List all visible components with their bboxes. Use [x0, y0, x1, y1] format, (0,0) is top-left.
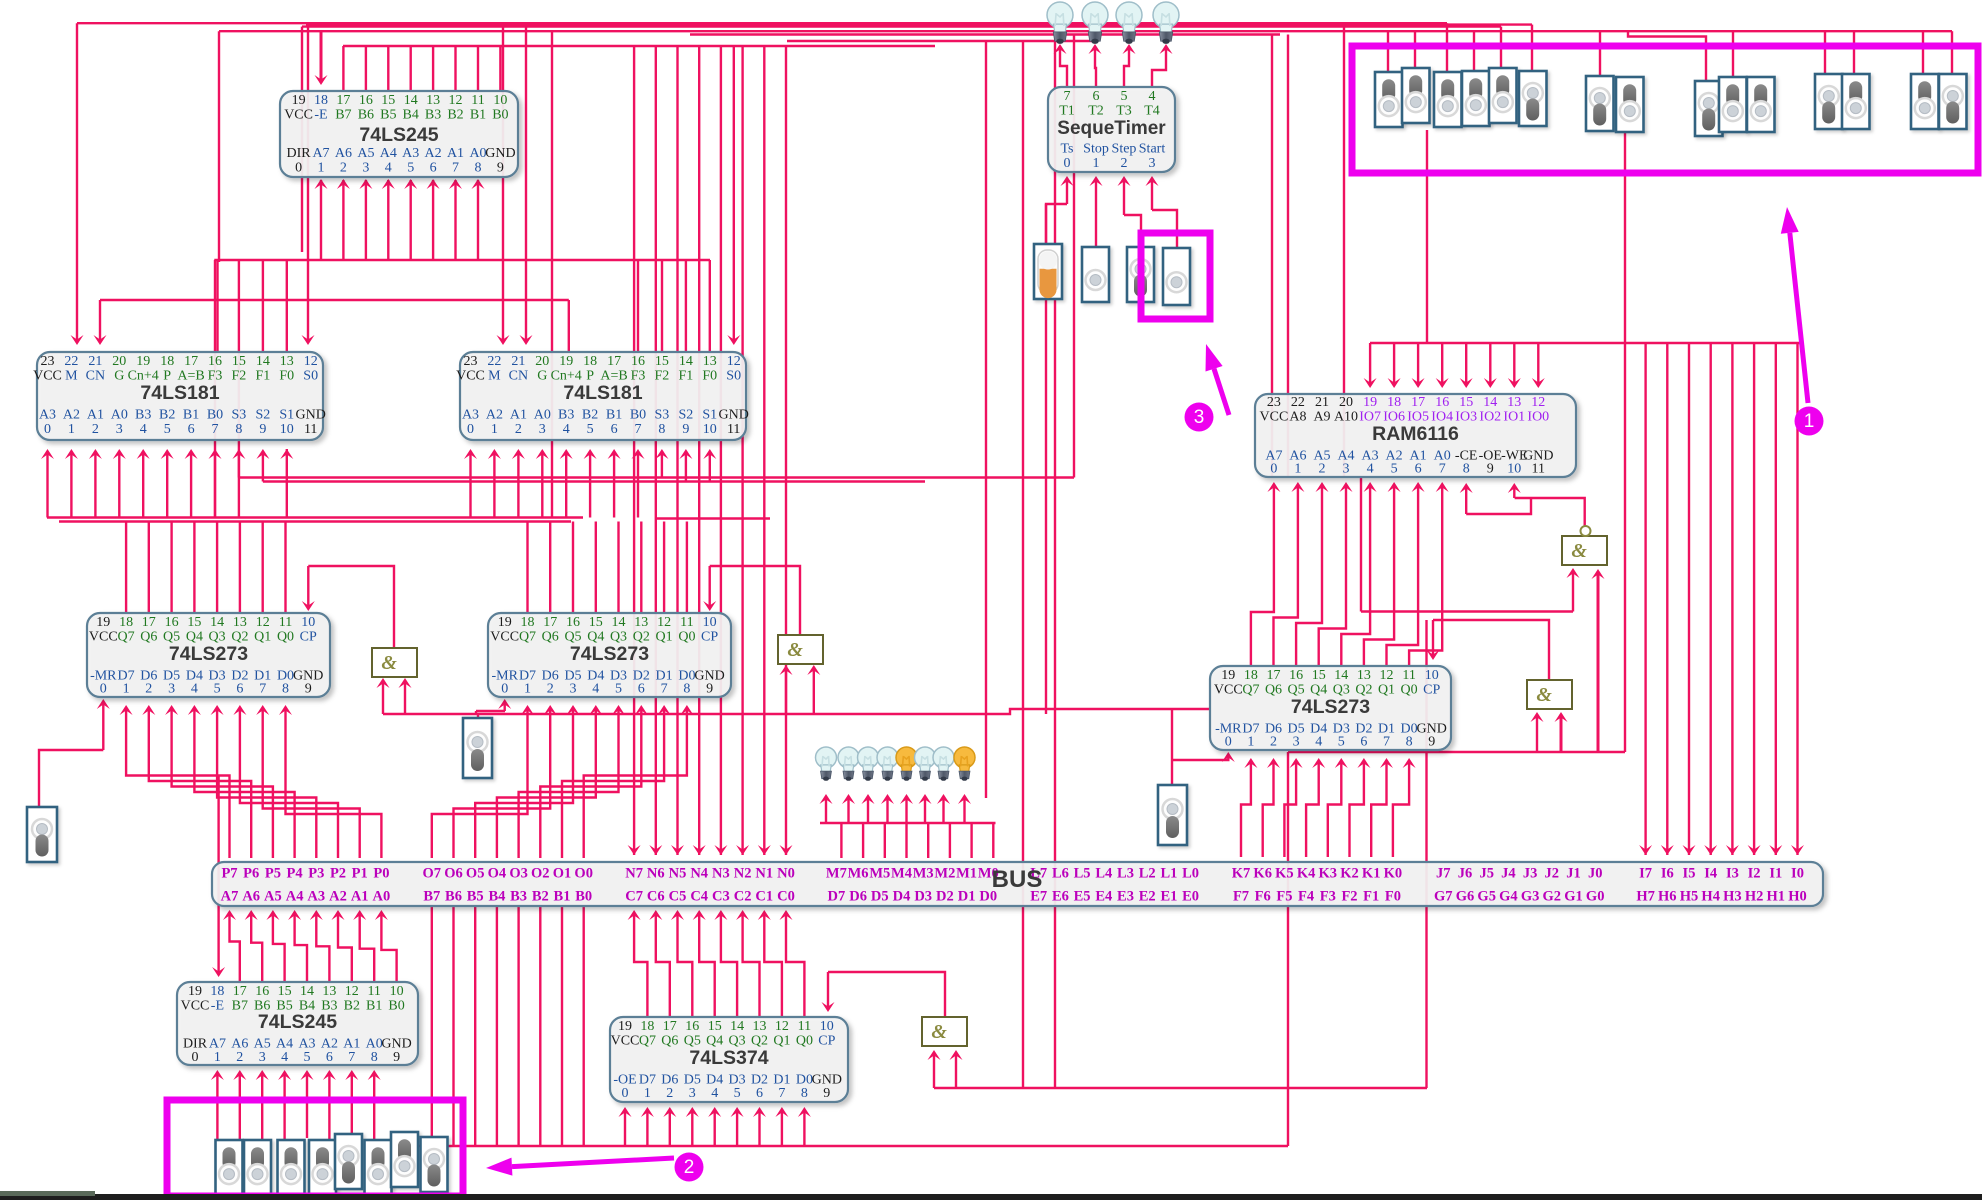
svg-text:F7: F7 [1233, 889, 1249, 905]
svg-text:H2: H2 [1745, 889, 1764, 905]
svg-text:11: 11 [1532, 462, 1545, 477]
svg-text:15: 15 [1312, 668, 1326, 683]
svg-text:23: 23 [41, 354, 55, 369]
svg-text:O7: O7 [423, 866, 442, 882]
svg-text:19: 19 [1363, 395, 1377, 410]
svg-text:A5: A5 [357, 146, 374, 161]
svg-text:Q7: Q7 [519, 630, 536, 645]
svg-text:13: 13 [1507, 395, 1521, 410]
svg-text:D4: D4 [893, 889, 911, 905]
svg-text:O3: O3 [509, 866, 528, 882]
svg-text:C2: C2 [734, 889, 752, 905]
svg-text:12: 12 [345, 984, 359, 999]
svg-text:B3: B3 [135, 408, 151, 423]
svg-text:A8: A8 [1289, 410, 1306, 425]
svg-text:4: 4 [1315, 735, 1322, 750]
svg-text:3: 3 [570, 682, 577, 697]
svg-text:Q7: Q7 [118, 630, 135, 645]
svg-text:B0: B0 [492, 108, 508, 123]
svg-text:5: 5 [304, 1050, 311, 1065]
svg-text:E6: E6 [1052, 889, 1069, 905]
svg-text:A2: A2 [329, 889, 347, 905]
svg-text:S2: S2 [679, 408, 694, 423]
svg-text:13: 13 [426, 93, 440, 108]
svg-text:10: 10 [280, 422, 294, 437]
svg-text:J1: J1 [1566, 866, 1581, 882]
svg-text:M1: M1 [956, 866, 977, 882]
svg-text:7: 7 [778, 1086, 785, 1101]
svg-text:H3: H3 [1723, 889, 1742, 905]
svg-text:2: 2 [340, 161, 347, 176]
svg-text:7: 7 [1439, 462, 1446, 477]
svg-text:B2: B2 [447, 108, 463, 123]
svg-text:Q6: Q6 [1265, 683, 1282, 698]
svg-text:E5: E5 [1074, 889, 1091, 905]
svg-text:9: 9 [682, 422, 689, 437]
svg-text:16: 16 [566, 615, 580, 630]
svg-text:P5: P5 [265, 866, 281, 882]
svg-text:B0: B0 [207, 408, 223, 423]
svg-text:M6: M6 [848, 866, 869, 882]
svg-text:S3: S3 [232, 408, 247, 423]
svg-text:F6: F6 [1255, 889, 1271, 905]
svg-text:G: G [114, 369, 124, 384]
svg-text:10: 10 [1507, 462, 1521, 477]
svg-text:N1: N1 [755, 866, 773, 882]
svg-text:74LS273: 74LS273 [570, 643, 649, 665]
svg-text:L6: L6 [1052, 866, 1069, 882]
svg-text:9: 9 [706, 682, 713, 697]
svg-text:B5: B5 [380, 108, 396, 123]
svg-text:C5: C5 [669, 889, 687, 905]
svg-text:B7: B7 [335, 108, 351, 123]
svg-text:1: 1 [318, 161, 325, 176]
svg-text:K2: K2 [1340, 866, 1359, 882]
svg-text:P1: P1 [352, 866, 368, 882]
svg-text:IO2: IO2 [1479, 410, 1501, 425]
svg-text:15: 15 [589, 615, 603, 630]
svg-text:A9: A9 [1313, 410, 1330, 425]
svg-text:A1: A1 [351, 889, 369, 905]
svg-text:S1: S1 [702, 408, 717, 423]
svg-text:I5: I5 [1683, 866, 1696, 882]
svg-text:17: 17 [142, 615, 156, 630]
svg-text:22: 22 [487, 354, 501, 369]
svg-text:N5: N5 [669, 866, 687, 882]
svg-text:14: 14 [1334, 668, 1348, 683]
svg-text:6: 6 [326, 1050, 333, 1065]
svg-text:2: 2 [666, 1086, 673, 1101]
svg-text:B3: B3 [510, 889, 527, 905]
svg-text:12: 12 [727, 354, 741, 369]
svg-text:11: 11 [304, 422, 317, 437]
svg-text:13: 13 [1357, 668, 1371, 683]
svg-text:Start: Start [1139, 142, 1166, 157]
svg-text:VCC: VCC [611, 1034, 640, 1049]
svg-text:K1: K1 [1362, 866, 1381, 882]
svg-text:74LS374: 74LS374 [689, 1047, 768, 1069]
svg-text:18: 18 [119, 615, 133, 630]
svg-text:7: 7 [1383, 735, 1390, 750]
svg-text:I7: I7 [1639, 866, 1652, 882]
svg-text:F2: F2 [1341, 889, 1357, 905]
svg-text:T4: T4 [1144, 104, 1160, 119]
svg-text:Q1: Q1 [254, 630, 271, 645]
svg-text:P0: P0 [373, 866, 389, 882]
svg-text:9: 9 [1428, 735, 1435, 750]
svg-text:B1: B1 [606, 408, 622, 423]
svg-text:B7: B7 [232, 999, 248, 1014]
svg-text:A4: A4 [380, 146, 397, 161]
svg-text:CP: CP [701, 630, 718, 645]
svg-text:M5: M5 [869, 866, 890, 882]
svg-text:N6: N6 [647, 866, 665, 882]
svg-text:E4: E4 [1095, 889, 1112, 905]
svg-text:8: 8 [475, 161, 482, 176]
svg-text:Ts: Ts [1060, 142, 1073, 157]
svg-text:17: 17 [233, 984, 247, 999]
svg-text:J3: J3 [1523, 866, 1538, 882]
svg-text:4: 4 [385, 161, 392, 176]
svg-text:9: 9 [1487, 462, 1494, 477]
svg-text:16: 16 [208, 354, 222, 369]
svg-text:2: 2 [1319, 462, 1326, 477]
svg-text:5: 5 [1338, 735, 1345, 750]
svg-text:74LS245: 74LS245 [359, 124, 438, 146]
svg-text:A1: A1 [87, 408, 104, 423]
svg-text:10: 10 [390, 984, 404, 999]
svg-text:M3: M3 [913, 866, 934, 882]
svg-text:13: 13 [233, 615, 247, 630]
svg-text:Q0: Q0 [796, 1034, 813, 1049]
svg-text:GND: GND [485, 146, 515, 161]
svg-text:15: 15 [232, 354, 246, 369]
svg-text:8: 8 [801, 1086, 808, 1101]
svg-text:0: 0 [1225, 735, 1232, 750]
svg-text:A0: A0 [469, 146, 486, 161]
svg-text:F1: F1 [256, 369, 271, 384]
svg-text:D6: D6 [849, 889, 867, 905]
svg-text:5: 5 [615, 682, 622, 697]
svg-text:18: 18 [210, 984, 224, 999]
svg-text:11: 11 [471, 93, 484, 108]
svg-text:7: 7 [259, 682, 266, 697]
svg-text:10: 10 [703, 615, 717, 630]
svg-text:I0: I0 [1791, 866, 1804, 882]
svg-text:CP: CP [818, 1034, 835, 1049]
svg-text:3: 3 [539, 422, 546, 437]
svg-text:O5: O5 [466, 866, 485, 882]
svg-text:6: 6 [756, 1086, 763, 1101]
svg-text:15: 15 [708, 1019, 722, 1034]
svg-text:11: 11 [279, 615, 292, 630]
svg-text:G5: G5 [1477, 889, 1496, 905]
svg-text:5: 5 [587, 422, 594, 437]
svg-text:14: 14 [612, 615, 626, 630]
svg-text:15: 15 [1459, 395, 1473, 410]
svg-text:&: & [1536, 684, 1552, 706]
svg-text:F2: F2 [232, 369, 247, 384]
svg-text:74LS181: 74LS181 [140, 382, 219, 404]
svg-text:7: 7 [635, 422, 642, 437]
svg-text:3: 3 [259, 1050, 266, 1065]
svg-text:B1: B1 [470, 108, 486, 123]
svg-text:Q7: Q7 [639, 1034, 656, 1049]
svg-text:CN: CN [86, 369, 105, 384]
svg-text:10: 10 [301, 615, 315, 630]
svg-text:&: & [931, 1021, 947, 1043]
svg-text:0: 0 [44, 422, 51, 437]
svg-text:GND: GND [719, 408, 749, 423]
svg-text:S0: S0 [303, 369, 318, 384]
svg-text:19: 19 [498, 615, 512, 630]
svg-text:CN: CN [509, 369, 528, 384]
svg-text:3: 3 [116, 422, 123, 437]
svg-text:O6: O6 [444, 866, 463, 882]
svg-text:S0: S0 [726, 369, 741, 384]
svg-text:21: 21 [1315, 395, 1329, 410]
svg-text:17: 17 [663, 1019, 677, 1034]
svg-text:3: 3 [168, 682, 175, 697]
svg-text:18: 18 [314, 93, 328, 108]
svg-text:B0: B0 [630, 408, 646, 423]
svg-text:N2: N2 [734, 866, 752, 882]
svg-text:N4: N4 [690, 866, 708, 882]
svg-text:K6: K6 [1253, 866, 1272, 882]
svg-text:H5: H5 [1680, 889, 1699, 905]
svg-text:O0: O0 [574, 866, 593, 882]
svg-text:19: 19 [188, 984, 202, 999]
svg-text:4: 4 [281, 1050, 288, 1065]
svg-text:P3: P3 [308, 866, 324, 882]
svg-text:13: 13 [322, 984, 336, 999]
svg-text:H4: H4 [1701, 889, 1720, 905]
svg-text:74LS245: 74LS245 [258, 1011, 337, 1033]
svg-text:G3: G3 [1521, 889, 1540, 905]
svg-text:22: 22 [64, 354, 78, 369]
svg-text:0: 0 [1270, 462, 1277, 477]
svg-text:7: 7 [452, 161, 459, 176]
svg-text:G: G [537, 369, 547, 384]
svg-text:13: 13 [634, 615, 648, 630]
svg-text:17: 17 [184, 354, 198, 369]
svg-text:K3: K3 [1319, 866, 1338, 882]
svg-text:Q7: Q7 [1242, 683, 1259, 698]
svg-text:18: 18 [1387, 395, 1401, 410]
svg-text:16: 16 [685, 1019, 699, 1034]
svg-text:16: 16 [631, 354, 645, 369]
svg-text:D3: D3 [914, 889, 932, 905]
svg-text:19: 19 [292, 93, 306, 108]
svg-text:12: 12 [1380, 668, 1394, 683]
svg-text:1: 1 [491, 422, 498, 437]
svg-text:B6: B6 [445, 889, 462, 905]
svg-text:J4: J4 [1501, 866, 1516, 882]
svg-text:0: 0 [1064, 156, 1071, 171]
svg-text:BUS: BUS [992, 866, 1043, 893]
svg-text:23: 23 [464, 354, 478, 369]
svg-text:B0: B0 [575, 889, 592, 905]
svg-text:0: 0 [295, 161, 302, 176]
svg-text:B5: B5 [467, 889, 484, 905]
svg-text:16: 16 [359, 93, 373, 108]
svg-text:Q0: Q0 [678, 630, 695, 645]
svg-text:I1: I1 [1769, 866, 1782, 882]
svg-text:1: 1 [1804, 411, 1815, 432]
svg-text:0: 0 [622, 1086, 629, 1101]
svg-text:I2: I2 [1748, 866, 1761, 882]
svg-text:A2: A2 [63, 408, 80, 423]
svg-text:21: 21 [511, 354, 525, 369]
svg-text:IO1: IO1 [1503, 410, 1525, 425]
svg-text:11: 11 [680, 615, 693, 630]
svg-text:6: 6 [236, 682, 243, 697]
svg-text:Stop: Stop [1083, 142, 1109, 157]
svg-text:M: M [65, 369, 78, 384]
svg-text:1: 1 [123, 682, 130, 697]
svg-text:1: 1 [1294, 462, 1301, 477]
svg-text:B1: B1 [366, 999, 382, 1014]
svg-text:Q0: Q0 [1401, 683, 1418, 698]
svg-text:B4: B4 [488, 889, 505, 905]
svg-text:E1: E1 [1160, 889, 1177, 905]
svg-text:O4: O4 [488, 866, 507, 882]
svg-text:F1: F1 [1363, 889, 1379, 905]
svg-text:VCC: VCC [490, 630, 519, 645]
svg-text:10: 10 [493, 93, 507, 108]
svg-text:5: 5 [734, 1086, 741, 1101]
svg-text:5: 5 [1391, 462, 1398, 477]
svg-text:1: 1 [644, 1086, 651, 1101]
svg-text:VCC: VCC [1214, 683, 1243, 698]
svg-text:A1: A1 [510, 408, 527, 423]
svg-text:6: 6 [638, 682, 645, 697]
svg-text:CP: CP [1423, 683, 1440, 698]
svg-text:H7: H7 [1636, 889, 1655, 905]
svg-text:-E: -E [211, 999, 224, 1014]
svg-text:A5: A5 [264, 889, 282, 905]
svg-text:F3: F3 [1320, 889, 1336, 905]
svg-text:15: 15 [381, 93, 395, 108]
svg-text:9: 9 [259, 422, 266, 437]
svg-text:8: 8 [1406, 735, 1413, 750]
svg-text:12: 12 [657, 615, 671, 630]
svg-text:B3: B3 [425, 108, 441, 123]
svg-text:L1: L1 [1160, 866, 1177, 882]
svg-text:C7: C7 [625, 889, 643, 905]
svg-text:GND: GND [296, 408, 326, 423]
svg-text:J7: J7 [1436, 866, 1451, 882]
svg-text:B7: B7 [423, 889, 440, 905]
svg-text:H6: H6 [1658, 889, 1677, 905]
svg-text:2: 2 [1121, 156, 1128, 171]
svg-text:12: 12 [449, 93, 463, 108]
svg-text:D5: D5 [871, 889, 889, 905]
svg-text:5: 5 [214, 682, 221, 697]
svg-text:21: 21 [88, 354, 102, 369]
svg-text:7: 7 [1064, 89, 1071, 104]
svg-text:19: 19 [618, 1019, 632, 1034]
svg-text:A2: A2 [486, 408, 503, 423]
svg-text:9: 9 [393, 1050, 400, 1065]
svg-text:G6: G6 [1456, 889, 1475, 905]
svg-text:8: 8 [282, 682, 289, 697]
svg-text:6: 6 [1415, 462, 1422, 477]
svg-text:I3: I3 [1726, 866, 1739, 882]
svg-text:19: 19 [136, 354, 150, 369]
svg-text:A7: A7 [221, 889, 239, 905]
svg-text:9: 9 [497, 161, 504, 176]
svg-text:8: 8 [658, 422, 665, 437]
svg-text:L2: L2 [1139, 866, 1156, 882]
svg-text:12: 12 [256, 615, 270, 630]
svg-text:1: 1 [1247, 735, 1254, 750]
svg-text:11: 11 [367, 984, 380, 999]
svg-text:E3: E3 [1117, 889, 1134, 905]
svg-text:20: 20 [112, 354, 126, 369]
svg-text:17: 17 [1267, 668, 1281, 683]
svg-text:11: 11 [727, 422, 740, 437]
svg-text:17: 17 [607, 354, 621, 369]
svg-text:18: 18 [583, 354, 597, 369]
svg-text:E2: E2 [1139, 889, 1156, 905]
svg-text:P2: P2 [330, 866, 346, 882]
svg-text:4: 4 [1367, 462, 1374, 477]
svg-text:P7: P7 [221, 866, 237, 882]
svg-text:IO0: IO0 [1527, 410, 1549, 425]
svg-text:17: 17 [1411, 395, 1425, 410]
svg-text:Q1: Q1 [773, 1034, 790, 1049]
svg-text:B3: B3 [558, 408, 574, 423]
svg-text:&: & [787, 639, 803, 661]
svg-text:B2: B2 [159, 408, 175, 423]
svg-text:5: 5 [164, 422, 171, 437]
svg-text:14: 14 [1483, 395, 1497, 410]
svg-text:2: 2 [92, 422, 99, 437]
svg-text:A10: A10 [1334, 410, 1358, 425]
svg-text:2: 2 [145, 682, 152, 697]
svg-text:T2: T2 [1088, 104, 1104, 119]
svg-text:K0: K0 [1384, 866, 1403, 882]
svg-text:B4: B4 [403, 108, 419, 123]
svg-text:9: 9 [823, 1086, 830, 1101]
svg-text:Q1: Q1 [656, 630, 673, 645]
svg-text:VCC: VCC [89, 630, 118, 645]
svg-text:N0: N0 [777, 866, 795, 882]
svg-text:I6: I6 [1661, 866, 1674, 882]
svg-text:3: 3 [362, 161, 369, 176]
svg-text:G4: G4 [1499, 889, 1518, 905]
svg-text:G0: G0 [1586, 889, 1605, 905]
svg-text:F5: F5 [1276, 889, 1292, 905]
svg-text:VCC: VCC [181, 999, 210, 1014]
svg-text:A2: A2 [425, 146, 442, 161]
svg-text:12: 12 [304, 354, 318, 369]
svg-text:1: 1 [68, 422, 75, 437]
svg-text:14: 14 [256, 354, 270, 369]
svg-text:F1: F1 [679, 369, 694, 384]
svg-text:B2: B2 [582, 408, 598, 423]
svg-text:16: 16 [1435, 395, 1449, 410]
svg-text:A1: A1 [447, 146, 464, 161]
svg-text:Q1: Q1 [1378, 683, 1395, 698]
svg-text:74LS181: 74LS181 [563, 382, 642, 404]
svg-text:VCC: VCC [33, 369, 62, 384]
svg-text:L3: L3 [1117, 866, 1134, 882]
svg-text:A3: A3 [402, 146, 419, 161]
svg-text:1: 1 [214, 1050, 221, 1065]
svg-text:9: 9 [305, 682, 312, 697]
